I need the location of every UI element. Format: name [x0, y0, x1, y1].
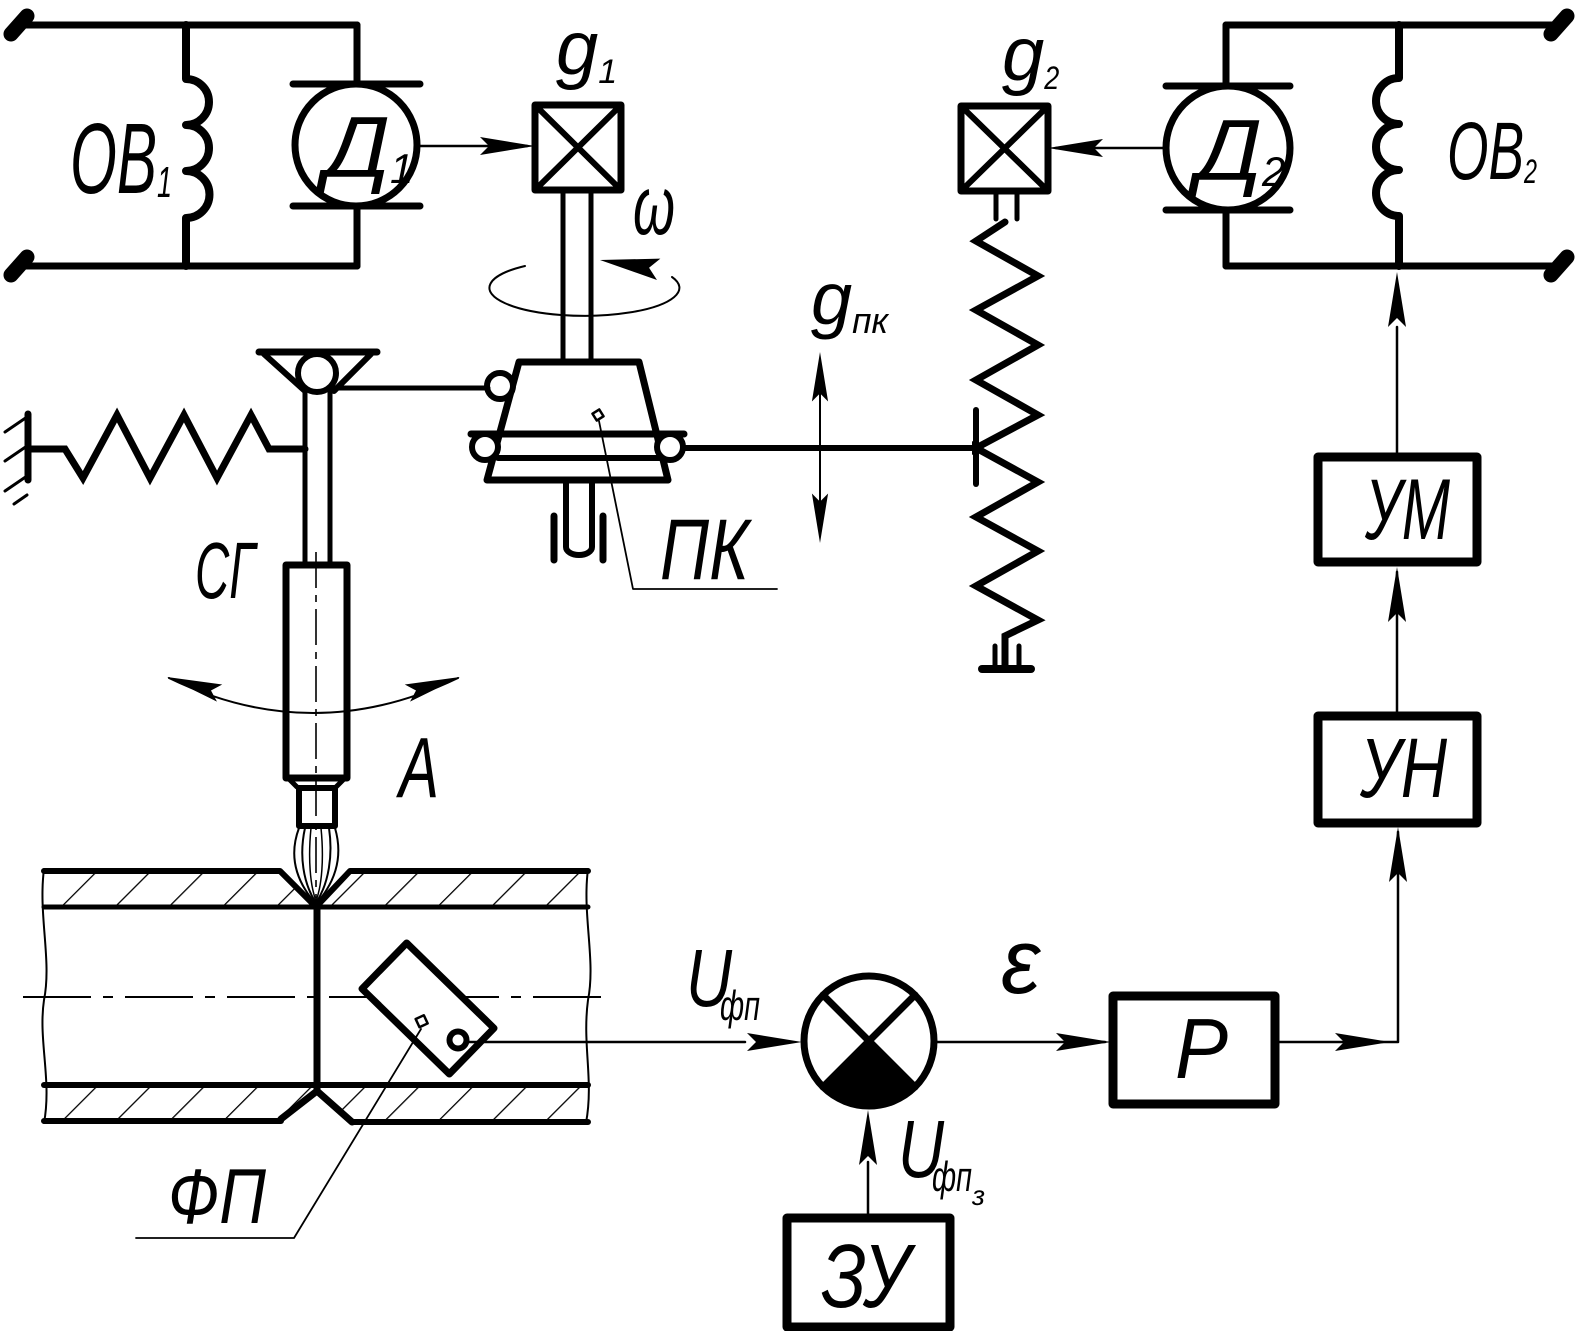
g_pk double arrow: [819, 360, 821, 535]
svg-text:УН: УН: [1359, 721, 1447, 815]
amplifier UN box: [1318, 716, 1477, 823]
friction cone PK body: [487, 362, 668, 480]
workpiece bottom lines: [44, 1121, 588, 1122]
motor D1 circle: [295, 84, 417, 206]
lower shaft of PK: [566, 480, 592, 555]
wall for spring: [25, 414, 32, 480]
roller rim-left: [472, 434, 498, 460]
wire: UM to OV2 circuit: [1396, 327, 1399, 457]
roller rim-right: [657, 434, 683, 460]
svg-text:Р: Р: [1175, 1002, 1228, 1097]
rotation arc around shaft: [489, 266, 679, 316]
wire break mark top-right: [1551, 16, 1567, 34]
workpiece hatch bottom band: [44, 1085, 316, 1121]
svg-text:УМ: УМ: [1364, 462, 1450, 558]
ground symbol: [982, 665, 1031, 673]
wire break mark top-left: [11, 16, 27, 34]
torch centerline: [315, 552, 317, 898]
wire: D2 circuit top wire: [1226, 22, 1563, 29]
wire: R output to riser: [1275, 832, 1398, 1042]
photo sensor FP body: [362, 943, 494, 1074]
field winding OV2 (coil): [1376, 25, 1399, 266]
shaft of g1: [563, 190, 591, 363]
FP leader dot: [416, 1015, 428, 1027]
svg-text:ФП: ФП: [168, 1152, 266, 1240]
wire: arrow D1 to gear g1: [419, 145, 527, 148]
wire: comparator to R block: [934, 1041, 1105, 1044]
spring horizontal: [28, 415, 305, 478]
field winding OV1 (coil): [186, 25, 209, 266]
svg-text:ПК: ПК: [660, 502, 752, 598]
wire break mark bottom-right: [1551, 257, 1567, 275]
friction wheel rim lines: [471, 431, 684, 438]
wall hatch: [5, 417, 27, 504]
comparator circle: [804, 976, 934, 1106]
torch body: [286, 565, 347, 778]
svg-text:ОВ: ОВ: [70, 103, 157, 215]
wire: arrow D2 to gear g2: [1056, 147, 1166, 150]
wire: Ufp signal line to comparator: [469, 1041, 745, 1044]
workpiece top surface with V-groove: [44, 871, 588, 907]
FP lens circle: [450, 1032, 467, 1049]
svg-text:ОВ2: ОВ2: [1447, 106, 1537, 197]
wire: armature branch D2: [1223, 25, 1230, 266]
pendulum rod: [305, 390, 330, 565]
wiper line from PK: [684, 445, 972, 451]
PK leader line: [599, 421, 777, 589]
torch neck: [299, 788, 335, 826]
roller upper-left: [487, 373, 513, 399]
potentiometer winding: [976, 222, 1038, 668]
workpiece top band inner line: [44, 905, 588, 910]
bearing mark right: [600, 516, 607, 560]
svg-text:А: А: [395, 721, 439, 816]
swing arc with arrows: [169, 678, 458, 713]
pendulum mount bar: [259, 349, 377, 356]
gear g2 box: [961, 106, 1048, 191]
wire break mark bottom-left: [11, 257, 27, 275]
PK leader dot: [592, 409, 603, 420]
g2 pins: [996, 191, 1017, 219]
motor D2 brush lines: [1166, 86, 1290, 210]
motor D2 circle: [1166, 86, 1290, 210]
wire: D2 circuit bottom wire: [1226, 263, 1563, 270]
workpiece hatch top band: [44, 871, 316, 907]
wire: armature branch D1: [354, 25, 361, 266]
link rod to PK: [332, 386, 488, 391]
torch collar: [289, 779, 344, 787]
svg-text:1: 1: [157, 158, 172, 207]
wiper bar: [973, 410, 979, 484]
power amplifier UM box: [1318, 457, 1477, 562]
svg-text:ЗУ: ЗУ: [821, 1227, 916, 1327]
wire: D1 circuit bottom wire: [15, 263, 357, 270]
bearing mark left: [551, 516, 558, 560]
svg-text:ω: ω: [633, 158, 675, 252]
workpiece axis centerline: [23, 996, 608, 998]
workpiece right break edge: [586, 869, 591, 1123]
workpiece left break edge: [42, 869, 46, 1123]
workpiece bottom band top line: [44, 1082, 588, 1088]
svg-text:ε: ε: [1001, 911, 1042, 1013]
weld seam line: [314, 903, 321, 1090]
wire: ZU to comparator: [867, 1162, 870, 1218]
regulator R box: [1113, 996, 1275, 1104]
gear g1 box: [535, 105, 621, 190]
FP leader line: [136, 1029, 421, 1238]
wiper tip: [972, 441, 984, 455]
svg-text:СГ: СГ: [195, 526, 258, 615]
motor D1 brush lines: [293, 84, 420, 206]
pivot circle: [298, 354, 336, 392]
pendulum mount triangle: [264, 354, 371, 391]
wire: D1 circuit top wire: [15, 22, 357, 29]
setpoint block ZU box: [787, 1218, 950, 1327]
wire: UN to UM: [1396, 572, 1399, 716]
arc flame: [294, 828, 338, 904]
weld root: [281, 1091, 352, 1122]
